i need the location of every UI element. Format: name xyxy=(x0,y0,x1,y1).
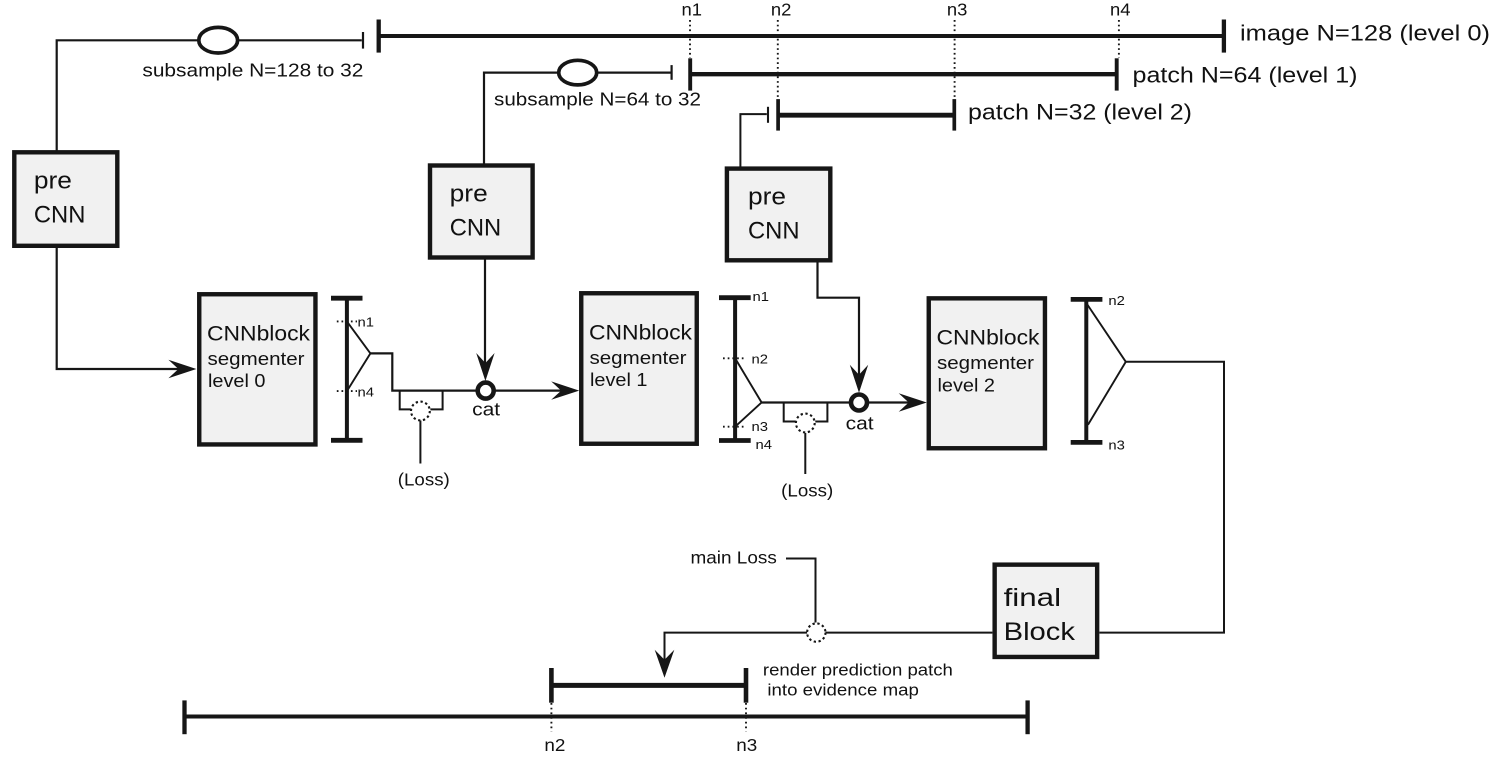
svg-text:n4: n4 xyxy=(1110,0,1131,20)
svg-text:n3: n3 xyxy=(947,0,968,20)
svg-text:n1: n1 xyxy=(682,0,703,20)
wire+arrow: pre CNN level0 into CNNblock level 0 xyxy=(57,246,197,378)
svg-text:segmenter: segmenter xyxy=(208,349,305,369)
cat node level2 xyxy=(846,395,874,434)
svg-text:n4: n4 xyxy=(756,437,773,452)
cat node level1 xyxy=(472,383,500,420)
node n3 tick on bar level1 xyxy=(723,419,768,434)
loss node (dashed circle) level0 xyxy=(411,402,430,421)
node n2 (top) xyxy=(771,0,792,99)
box: pre CNN U3 (level 2) xyxy=(727,169,830,261)
wire+arrow: pre CNN level2 into cat level2 xyxy=(818,260,869,393)
svg-text:final: final xyxy=(1004,584,1062,612)
node n1 (top) xyxy=(682,0,703,58)
scale bar level 0 xyxy=(331,298,363,440)
wire+arrow: cat to CNNblock level 1 xyxy=(496,381,580,399)
fan output (bar to apex) xyxy=(1086,303,1126,425)
svg-text:patch N=64 (level 1): patch N=64 (level 1) xyxy=(1133,63,1358,88)
loss tap bracket level1 xyxy=(784,403,828,422)
svg-text:cat: cat xyxy=(846,414,874,434)
wire end tick at image line xyxy=(362,32,364,49)
label: render prediction patch / into evidence map xyxy=(763,662,953,700)
wire: loss node to label xyxy=(419,421,421,464)
svg-text:n2: n2 xyxy=(544,735,565,755)
scale line: prediction patch (thick, n2-n3) xyxy=(551,668,746,703)
loss tap bracket level0 xyxy=(400,391,443,410)
node n3 (top) xyxy=(947,0,968,99)
node n1 tick on bar level0 xyxy=(337,315,374,330)
svg-text:CNN: CNN xyxy=(34,202,86,229)
scale line: patch N=64 (level 1) xyxy=(690,58,1116,90)
svg-text:subsample N=64 to 32: subsample N=64 to 32 xyxy=(494,89,701,110)
svg-text:pre: pre xyxy=(450,181,488,208)
subsample ellipse S2 xyxy=(559,60,597,85)
svg-text:subsample N=128 to 32: subsample N=128 to 32 xyxy=(142,60,363,81)
wire: pre CNN level2 top to patch32 line xyxy=(740,114,766,167)
svg-text:into evidence map: into evidence map xyxy=(767,682,919,700)
wire: pre CNN level1 top to patch64 line xyxy=(484,73,671,165)
svg-text:image N=128 (level 0): image N=128 (level 0) xyxy=(1240,21,1490,46)
box: pre CNN U2 (level 1) xyxy=(430,166,533,258)
svg-text:level 0: level 0 xyxy=(208,371,266,391)
scale bar output xyxy=(1071,299,1103,442)
svg-text:patch N=32 (level 2): patch N=32 (level 2) xyxy=(968,100,1192,125)
svg-text:(Loss): (Loss) xyxy=(781,480,833,500)
box: CNNblock segmenter level 2 xyxy=(929,298,1045,448)
svg-text:n2: n2 xyxy=(1108,293,1125,308)
svg-text:(Loss): (Loss) xyxy=(398,469,450,489)
wire: main Loss label to loss node xyxy=(786,559,816,623)
svg-text:render prediction patch: render prediction patch xyxy=(763,662,953,680)
wire end tick at patch32 line xyxy=(767,107,769,123)
fan level1 (bar to apex) xyxy=(735,358,762,426)
wire: fan apex to cat level1 xyxy=(370,353,476,390)
svg-text:pre: pre xyxy=(748,184,786,211)
main loss node (dashed circle) xyxy=(807,623,825,641)
wire: loss node to label level1 xyxy=(804,433,806,474)
svg-text:n2: n2 xyxy=(752,351,769,366)
wire+arrow: final Block to evidence map xyxy=(655,633,993,678)
svg-text:CNN: CNN xyxy=(450,215,502,242)
svg-text:Block: Block xyxy=(1004,618,1076,646)
scale line: evidence map (bottom) xyxy=(185,700,1028,734)
fan level0 (bar to apex) xyxy=(347,321,371,391)
scale line: image N=128 (level 0) xyxy=(379,20,1224,53)
svg-text:n1: n1 xyxy=(358,315,375,330)
svg-text:CNN: CNN xyxy=(748,218,800,245)
node n4 (top) xyxy=(1110,0,1131,58)
svg-text:segmenter: segmenter xyxy=(590,348,687,368)
scale bar level 1 xyxy=(719,298,751,441)
box: CNNblock segmenter level 1 xyxy=(581,293,697,444)
svg-text:n3: n3 xyxy=(752,419,769,434)
scale line: patch N=32 (level 2) xyxy=(778,99,954,131)
node n3 (bottom) xyxy=(736,703,757,755)
svg-text:cat: cat xyxy=(472,400,500,420)
wire+arrow: pre CNN level1 down into cat node xyxy=(476,258,494,382)
wire: fan apex to final Block xyxy=(1099,362,1224,633)
node n2 tick on bar level1 xyxy=(723,351,768,366)
svg-text:n1: n1 xyxy=(753,289,770,304)
loss node (dashed circle) level1 xyxy=(796,414,815,433)
svg-text:pre: pre xyxy=(34,168,72,195)
svg-text:n3: n3 xyxy=(736,735,757,755)
svg-text:n2: n2 xyxy=(771,0,792,20)
svg-text:n3: n3 xyxy=(1108,438,1125,453)
box: CNNblock segmenter level 0 xyxy=(199,294,315,444)
wire: pre CNN level0 top to image line xyxy=(57,40,362,151)
node n4 tick on bar level0 xyxy=(337,384,374,399)
wire+arrow: cat to CNNblock level 2 xyxy=(869,393,927,411)
svg-text:n4: n4 xyxy=(358,384,375,399)
box: final Block xyxy=(995,565,1098,657)
svg-text:CNNblock: CNNblock xyxy=(589,322,693,345)
subsample ellipse S1 xyxy=(199,27,238,53)
svg-text:level 1: level 1 xyxy=(590,370,648,390)
svg-text:segmenter: segmenter xyxy=(937,353,1034,373)
svg-text:CNNblock: CNNblock xyxy=(207,323,311,346)
svg-text:CNNblock: CNNblock xyxy=(937,327,1041,350)
wire: fan apex to cat level2 xyxy=(762,401,850,403)
svg-text:main Loss: main Loss xyxy=(691,547,778,567)
svg-text:level 2: level 2 xyxy=(938,375,996,395)
node n2 (bottom) xyxy=(544,703,565,755)
wire end tick at patch64 line xyxy=(670,65,672,80)
box: pre CNN U1 (level 0) xyxy=(14,152,117,246)
